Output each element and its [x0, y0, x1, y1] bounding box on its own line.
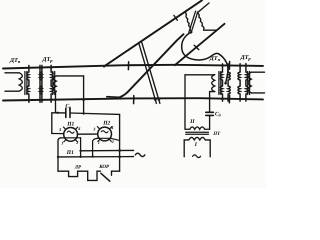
wire DTr secondary bottom lead to Cr	[56, 91, 58, 113]
node insulated joint top rail left	[127, 62, 129, 70]
wire bottom rail	[3, 98, 263, 100]
wire DTr secondary top lead down to Cr wire	[83, 76, 85, 114]
svg-text:ПТ: ПТ	[212, 131, 221, 137]
transformer PT	[184, 75, 210, 158]
wire top rail	[3, 65, 263, 69]
wire supply line 1	[81, 149, 134, 151]
svg-text:4: 4	[110, 125, 113, 130]
svg-text:1: 1	[61, 140, 63, 145]
transformer DTr left impedance bond	[40, 65, 84, 102]
svg-text:II: II	[189, 119, 195, 125]
contact KOR blade	[101, 173, 110, 181]
svg-text:ЛР: ЛР	[74, 164, 82, 170]
wire branch rail A closure	[107, 96, 119, 99]
svg-text:ДТр: ДТр	[42, 57, 54, 63]
node insulated joint on rail D	[194, 45, 199, 49]
wire branch rail D lower	[175, 24, 225, 65]
wire P1 chord right down	[80, 138, 82, 157]
transformer DTp left impedance bond	[5, 65, 42, 102]
transformer DTr right impedance bond	[238, 64, 265, 101]
node jumper junction dots	[154, 98, 157, 101]
wire lead from rail B to branch transformer	[186, 10, 187, 14]
node insulated joint bottom rail right	[228, 95, 230, 103]
capacitor Cd	[206, 92, 214, 116]
receiver P2 (DSSh track element)	[97, 127, 119, 142]
svg-text:Сд: Сд	[215, 112, 221, 118]
wire jumper double line 1	[139, 44, 156, 104]
wire P1 chord left down to supply	[58, 138, 60, 171]
capacitor Cr	[58, 108, 120, 117]
svg-text:ДТп: ДТп	[209, 56, 221, 62]
svg-text:ДТр: ДТр	[240, 55, 252, 61]
svg-text:4: 4	[77, 126, 80, 131]
contact chain LR KOR	[58, 171, 100, 180]
svg-text:КОР: КОР	[98, 164, 110, 170]
wire jumper double line 2	[142, 43, 160, 104]
svg-text:П1: П1	[66, 150, 74, 156]
svg-text:П2: П2	[102, 121, 110, 127]
node AC source tilde	[135, 153, 145, 156]
svg-text:Ср: Ср	[66, 103, 72, 109]
svg-text:1: 1	[98, 140, 100, 145]
wire P2 chord left down	[93, 138, 98, 156]
node arc end dot	[224, 82, 227, 85]
svg-text:ДТп: ДТп	[9, 58, 21, 64]
wire arc cable from branch DT to DTp midpoint	[182, 32, 228, 83]
svg-text:2: 2	[111, 139, 114, 144]
node insulated joint bottom rail left	[133, 96, 135, 104]
wire pin3 link	[52, 133, 64, 135]
wire Cr left branch down	[52, 113, 58, 134]
node insulated joint top rail right	[228, 62, 230, 70]
svg-text:П1: П1	[66, 121, 74, 127]
svg-text:3: 3	[92, 127, 95, 132]
svg-text:2: 2	[75, 140, 78, 145]
wire supply line 2	[58, 156, 134, 158]
wire branch rail B upper	[104, 0, 202, 66]
node insulated joint on rail B	[174, 15, 177, 20]
svg-text:3: 3	[58, 127, 61, 132]
wire between receivers	[78, 133, 98, 135]
receiver P1 (DSSh track element)	[60, 127, 80, 142]
transformer DT branch (rotated)	[186, 3, 216, 33]
wire right vertical from Cr corner	[119, 114, 121, 171]
svg-text:I: I	[194, 142, 198, 148]
transformer DTp right impedance bond	[185, 64, 230, 101]
